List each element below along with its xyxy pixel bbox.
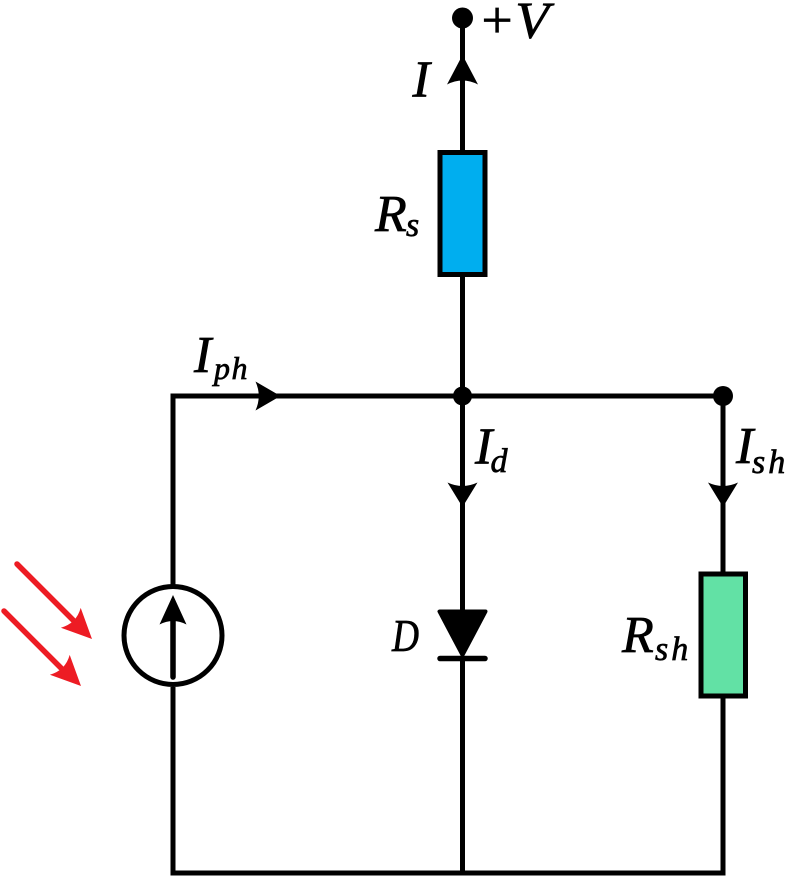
svg-text:D: D xyxy=(391,611,419,661)
light ray arrow 2 (red) xyxy=(4,611,81,686)
svg-text:R: R xyxy=(621,607,654,664)
wire right branch lower xyxy=(721,696,726,873)
resistor Rs xyxy=(440,153,485,275)
wire from diode to bottom rail xyxy=(460,658,465,873)
svg-text:s: s xyxy=(406,207,419,244)
svg-text:sh: sh xyxy=(655,631,691,668)
wire horizontal top rail xyxy=(173,394,723,399)
wire left branch lower xyxy=(171,687,176,873)
current source circle xyxy=(124,587,222,685)
svg-text:d: d xyxy=(491,443,509,480)
diode D cathode bar xyxy=(440,656,485,662)
node +V terminal dot xyxy=(452,8,473,29)
resistor Rsh xyxy=(701,574,746,696)
wire from +V terminal down to Rs xyxy=(460,18,465,155)
svg-text:ph: ph xyxy=(212,350,249,386)
wire from Rs down through node to diode xyxy=(460,275,465,612)
svg-text:I: I xyxy=(412,52,433,109)
wire bottom rail xyxy=(173,871,723,876)
svg-text:+V: +V xyxy=(478,0,555,50)
arrowhead current Id (down) xyxy=(448,483,478,508)
node junction right xyxy=(713,386,733,406)
svg-text:I: I xyxy=(193,327,214,384)
current source arrow shaft xyxy=(170,617,176,677)
svg-text:R: R xyxy=(374,186,407,243)
arrowhead current Iph (right) xyxy=(256,382,281,411)
arrowhead current Ish (down) xyxy=(708,483,738,508)
wire left branch upper xyxy=(171,396,176,586)
node junction middle xyxy=(453,387,472,406)
wire right branch upper xyxy=(721,396,726,574)
arrowhead current I (up) xyxy=(447,55,478,85)
diode D triangle xyxy=(440,612,486,656)
current source arrowhead xyxy=(160,595,187,625)
svg-text:sh: sh xyxy=(752,444,788,481)
light ray arrow 1 (red) xyxy=(17,564,92,639)
